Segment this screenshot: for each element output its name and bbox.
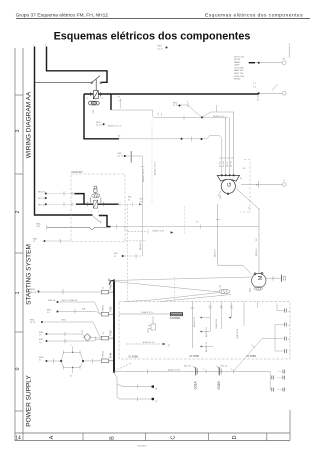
svg-text:D: D — [232, 435, 238, 439]
svg-text:EM4: EM4 — [39, 332, 44, 334]
svg-text:FM1: FM1 — [109, 306, 113, 312]
svg-text:a: a — [71, 345, 73, 347]
svg-text:BLK: BLK — [114, 253, 119, 255]
svg-text:RED 1.5 EM4 30: RED 1.5 EM4 30 — [62, 300, 78, 302]
svg-text:30 16: 30 16 — [31, 292, 37, 294]
svg-text:FM4: FM4 — [109, 352, 113, 358]
svg-text:MAIN SW: MAIN SW — [234, 69, 243, 72]
svg-text:BLACK 0.75: BLACK 0.75 — [153, 229, 165, 232]
svg-text:3 4: 3 4 — [253, 87, 257, 89]
svg-text:PANEL: PANEL — [234, 61, 242, 64]
svg-text:EM4 30: EM4 30 — [48, 300, 56, 302]
svg-text:X55: X55 — [147, 328, 149, 333]
svg-text:BAT+: BAT+ — [37, 223, 43, 226]
svg-text:BLK 31: BLK 31 — [38, 198, 46, 200]
svg-text:RED: RED — [118, 153, 123, 155]
svg-text:31 2.5: 31 2.5 — [158, 48, 165, 50]
svg-text:30: 30 — [47, 312, 50, 314]
svg-text:b: b — [45, 45, 47, 47]
svg-text:EM4: EM4 — [47, 310, 52, 312]
svg-text:BLACK 31: BLACK 31 — [139, 239, 142, 250]
svg-text:G01B: G01B — [217, 381, 221, 389]
svg-text:D+ 61: D+ 61 — [223, 161, 225, 167]
svg-text:BLACK 31: BLACK 31 — [236, 328, 239, 339]
svg-text:CLUSTER: CLUSTER — [234, 67, 244, 69]
svg-text:31: 31 — [33, 241, 36, 243]
svg-text:d: d — [289, 44, 291, 46]
svg-text:G: G — [283, 180, 285, 182]
svg-text:31 16: 31 16 — [30, 322, 36, 324]
svg-text:BAT-: BAT- — [33, 238, 38, 241]
svg-text:31 2.5: 31 2.5 — [96, 125, 103, 127]
svg-text:J3 X088: J3 X088 — [189, 354, 199, 358]
svg-text:BLACK 31 1.5: BLACK 31 1.5 — [142, 168, 145, 182]
svg-text:BATT 24V: BATT 24V — [234, 72, 244, 75]
svg-text:1: 1 — [87, 98, 89, 100]
svg-text:EM4: EM4 — [39, 357, 44, 359]
svg-text:RED: RED — [62, 320, 67, 322]
svg-text:M: M — [258, 275, 264, 280]
svg-text:1 2: 1 2 — [253, 83, 257, 85]
svg-text:X54: X54 — [220, 284, 222, 289]
svg-text:1: 1 — [203, 369, 205, 371]
svg-text:E1: E1 — [283, 59, 286, 61]
svg-text:RED 16: RED 16 — [256, 248, 258, 256]
svg-text:B+ 61: B+ 61 — [219, 161, 221, 167]
svg-text:G02: G02 — [220, 194, 222, 199]
svg-text:14: 14 — [15, 436, 21, 442]
svg-text:RED 1.5: RED 1.5 — [214, 248, 216, 257]
svg-text:WIRING DIAGRAM AA: WIRING DIAGRAM AA — [26, 91, 33, 158]
svg-text:RED: RED — [158, 46, 163, 48]
svg-text:31: 31 — [257, 100, 260, 102]
svg-text:BLACK 31 2.5: BLACK 31 2.5 — [108, 125, 122, 128]
svg-text:J3 X088: J3 X088 — [246, 354, 256, 358]
svg-text:31: 31 — [70, 375, 73, 377]
svg-text:31: 31 — [156, 399, 158, 402]
svg-text:BLK 16: BLK 16 — [184, 365, 192, 367]
svg-text:24V: 24V — [37, 226, 41, 228]
svg-text:FM2: FM2 — [109, 330, 113, 336]
svg-text:USACONT: USACONT — [71, 171, 83, 174]
svg-text:31: 31 — [128, 199, 131, 201]
svg-text:RELAY: RELAY — [234, 78, 241, 81]
svg-text:BLK: BLK — [140, 199, 145, 201]
svg-text:BLK: BLK — [128, 197, 133, 199]
svg-text:BLACK 31: BLACK 31 — [205, 326, 208, 337]
svg-text:Esquemas elétricos dos compone: Esquemas elétricos dos componentes — [54, 30, 251, 42]
svg-text:W 61: W 61 — [227, 161, 229, 167]
svg-text:BLACK 31 1.5: BLACK 31 1.5 — [154, 161, 157, 175]
svg-text:LAMP: LAMP — [234, 64, 240, 67]
svg-text:50: 50 — [256, 238, 258, 241]
svg-text:C1: C1 — [103, 286, 105, 290]
svg-text:1: 1 — [231, 369, 233, 371]
svg-text:C2: C2 — [220, 305, 224, 307]
svg-text:Grupo 37 Esquema elétrico FM,: Grupo 37 Esquema elétrico FM, FH, NH12 — [16, 12, 109, 18]
svg-text:2: 2 — [15, 210, 21, 213]
svg-text:30: 30 — [243, 168, 246, 170]
svg-text:STARTING SYSTEM: STARTING SYSTEM — [26, 244, 33, 305]
svg-text:EM4: EM4 — [31, 289, 36, 291]
svg-text:2: 2 — [102, 98, 104, 100]
svg-text:1: 1 — [15, 291, 21, 294]
svg-text:A: A — [49, 435, 55, 439]
svg-text:INSTR: INSTR — [234, 59, 241, 61]
svg-text:15: 15 — [39, 342, 42, 344]
svg-text:FUSE 10A: FUSE 10A — [234, 75, 244, 78]
svg-text:X25: X25 — [82, 329, 84, 334]
svg-text:K13: K13 — [93, 109, 95, 114]
svg-text:a: a — [33, 45, 35, 47]
svg-text:PRU41: PRU41 — [103, 304, 105, 312]
svg-text:2: 2 — [98, 211, 100, 213]
svg-text:JUMPER: JUMPER — [169, 316, 180, 320]
svg-text:BLK 16: BLK 16 — [221, 365, 229, 367]
svg-text:61: 61 — [240, 178, 243, 180]
svg-text:BLACK 0.75: BLACK 0.75 — [143, 341, 155, 344]
svg-text:31: 31 — [156, 387, 158, 390]
svg-text:BLACK 0.75: BLACK 0.75 — [142, 311, 154, 314]
svg-text:RED: RED — [96, 122, 101, 124]
svg-text:31: 31 — [140, 201, 143, 203]
svg-text:31 1.5: 31 1.5 — [173, 105, 180, 107]
svg-text:FM3: FM3 — [109, 284, 113, 290]
svg-text:30: 30 — [118, 136, 121, 138]
svg-text:1: 1 — [91, 211, 93, 213]
svg-text:EM4: EM4 — [30, 320, 35, 322]
svg-text:C2: C2 — [209, 305, 213, 307]
svg-text:c: c — [289, 351, 290, 353]
svg-text:Esquemas elétricos dos compone: Esquemas elétricos dos componentes — [205, 12, 303, 18]
svg-text:31: 31 — [169, 343, 171, 346]
svg-text:31: 31 — [118, 97, 121, 99]
svg-text:B: B — [110, 436, 116, 440]
svg-text:RED: RED — [173, 103, 178, 105]
svg-text:T3014492: T3014492 — [137, 446, 147, 448]
svg-text:BLACK 31: BLACK 31 — [205, 341, 208, 352]
svg-text:31: 31 — [39, 360, 42, 362]
svg-text:41: 41 — [103, 331, 105, 334]
svg-text:50: 50 — [196, 222, 199, 224]
svg-text:31 1.5: 31 1.5 — [118, 156, 125, 158]
svg-text:G: G — [227, 182, 233, 186]
svg-text:BLACK 16 31: BLACK 16 31 — [168, 368, 181, 371]
svg-text:C: C — [171, 435, 177, 439]
svg-text:EM4: EM4 — [39, 339, 44, 341]
svg-text:G01A: G01A — [194, 380, 198, 389]
svg-text:0: 0 — [15, 367, 21, 370]
svg-text:POWER SUPPLY: POWER SUPPLY — [26, 375, 33, 427]
svg-text:BLACK 0.75: BLACK 0.75 — [213, 115, 225, 118]
svg-text:BLACK 31: BLACK 31 — [193, 316, 196, 327]
svg-text:BLACK 31: BLACK 31 — [215, 318, 218, 329]
svg-text:31: 31 — [114, 256, 117, 258]
svg-text:M04: M04 — [250, 287, 252, 292]
svg-text:PRU41: PRU41 — [103, 350, 105, 358]
svg-text:J3 X088: J3 X088 — [128, 355, 138, 359]
svg-text:15: 15 — [39, 335, 42, 337]
svg-text:3: 3 — [15, 129, 21, 132]
svg-text:25A: 25A — [82, 308, 86, 311]
svg-text:C2: C2 — [230, 305, 234, 307]
svg-text:DF 61: DF 61 — [230, 160, 232, 167]
